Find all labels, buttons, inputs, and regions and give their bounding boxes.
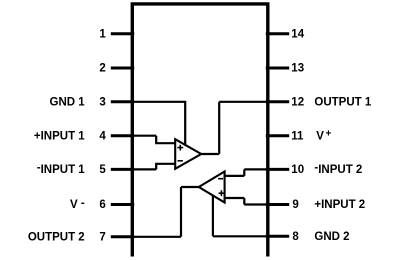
pin 1 stub [111,32,134,35]
svg-text:-INPUT 1: -INPUT 1 [37,162,86,176]
pin 3 stub [111,100,134,103]
svg-text:V+: V+ [316,129,331,143]
pin 12 stub [266,100,289,103]
pin 6 stub [111,203,134,206]
wire pin5 -IN1 to U1 [133,164,176,170]
svg-text:+INPUT 1: +INPUT 1 [34,130,85,142]
pin 5 stub [111,168,134,171]
pin 10 stub [266,168,289,171]
svg-text:2: 2 [99,63,105,75]
pin 2 stub [111,67,134,70]
svg-text:10: 10 [291,164,304,176]
wire U1 output to pin12 [201,102,268,154]
pin 13 stub [266,67,289,70]
svg-text:GND 2: GND 2 [314,231,349,243]
wire pin3 GND1 to U1 top edge [133,101,185,146]
wire U2 output to pin7 [133,187,200,237]
svg-text:OUTPUT 1: OUTPUT 1 [314,97,371,109]
op-amp U1 plus input symbol [177,145,183,151]
op-amp U2 minus input symbol [218,178,223,180]
wire U2 bottom edge to pin8 GND2 [213,195,267,237]
pin 4 stub [111,134,134,137]
svg-text:5: 5 [99,164,106,176]
pin 8 stub [266,235,289,238]
svg-text:OUTPUT 2: OUTPUT 2 [28,232,85,244]
svg-text:GND 1: GND 1 [50,97,86,109]
svg-text:6: 6 [99,199,105,211]
pin 7 stub [111,235,134,238]
op-amp U2 triangle [199,172,225,203]
svg-text:12: 12 [291,97,304,109]
svg-text:-INPUT 2: -INPUT 2 [314,162,362,176]
svg-text:1: 1 [99,29,106,41]
wire pin9 +IN2 to U2 [224,198,267,205]
wire pin10 -IN2 to U2 [224,169,267,176]
svg-text:+INPUT 2: +INPUT 2 [314,199,365,211]
op-amp U1 minus input symbol [178,160,183,162]
wire pin4 +IN1 to U1 [133,136,176,144]
pin 14 stub [266,32,289,35]
svg-text:9: 9 [292,199,298,211]
svg-text:13: 13 [291,63,304,75]
svg-text:11: 11 [291,130,304,142]
svg-text:3: 3 [99,97,105,109]
op-amp U1 triangle [175,139,201,169]
pin 9 stub [266,203,289,206]
svg-text:V -: V - [70,197,85,211]
IC package outline (14-pin DIP body, bottom edge cut off) [132,4,267,257]
svg-text:8: 8 [292,231,299,243]
op-amp U2 plus input symbol [219,190,225,196]
pin 11 stub [266,134,289,137]
svg-text:7: 7 [99,232,105,244]
svg-text:14: 14 [291,29,304,41]
svg-text:4: 4 [99,130,106,142]
